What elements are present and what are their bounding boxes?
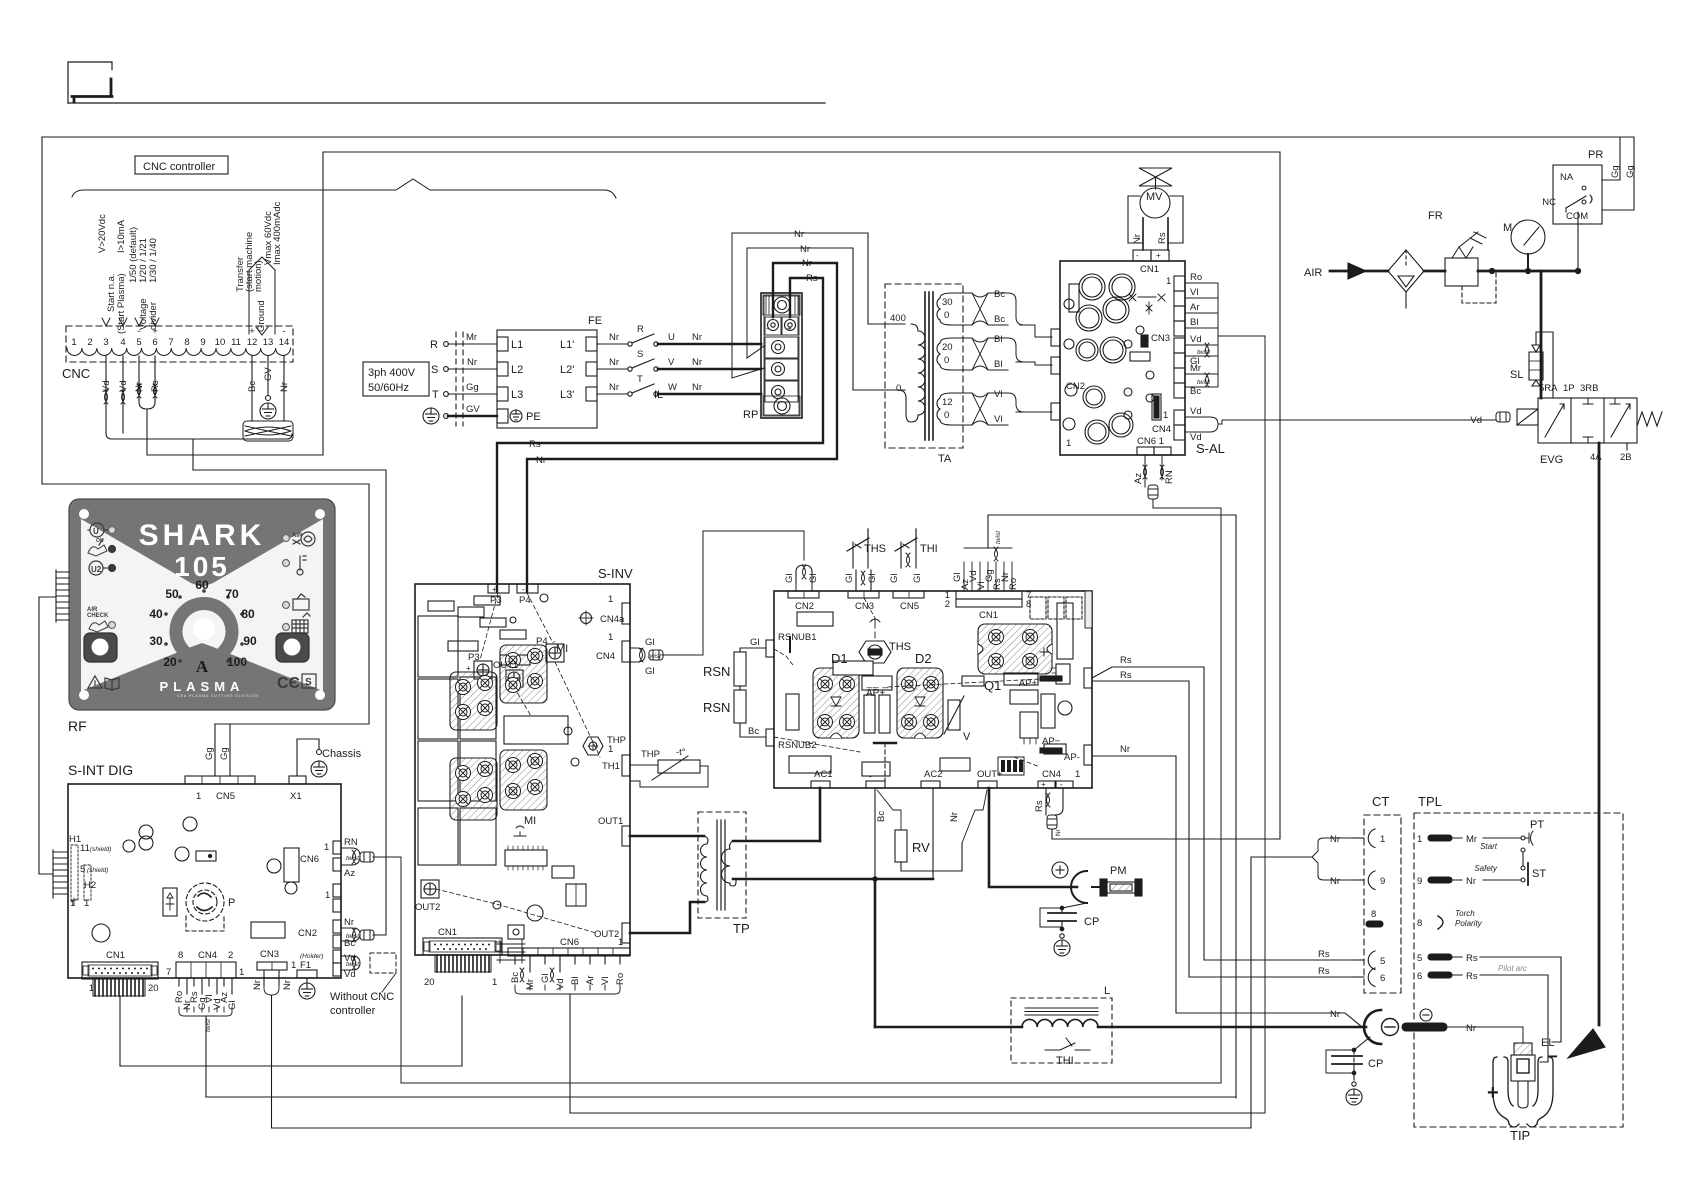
wire bus below CNC <box>106 433 292 439</box>
svg-text:divider: divider <box>148 302 159 330</box>
svg-text:5RA: 5RA <box>1539 383 1558 394</box>
TA secondary leads <box>952 293 972 425</box>
air flow arrowhead to torch <box>1568 1029 1605 1058</box>
wire Bc to RV <box>877 790 901 830</box>
RP and TA wiring <box>497 233 905 592</box>
svg-text:RV: RV <box>912 840 930 855</box>
svg-text:V>20Vdc: V>20Vdc <box>97 214 108 253</box>
svg-text:controller: controller <box>330 1005 376 1017</box>
svg-text:twist: twist <box>1197 379 1211 386</box>
twist marks TA pairs <box>972 293 988 325</box>
cable join Nr/Rs <box>139 399 155 409</box>
svg-text:S: S <box>305 677 312 688</box>
svg-text:CЄ: CЄ <box>277 675 300 692</box>
svg-text:U: U <box>93 527 99 536</box>
svg-text:5: 5 <box>1380 956 1385 967</box>
svg-text:CHECK: CHECK <box>87 613 109 619</box>
CN4 S-INT connector <box>176 962 236 1097</box>
svg-text:3ph 400V: 3ph 400V <box>368 367 416 379</box>
svg-text:+: + <box>466 664 471 673</box>
svg-text:W: W <box>668 382 677 393</box>
V varistor <box>948 700 960 730</box>
RP top screw <box>763 295 800 315</box>
panel dial <box>149 578 257 676</box>
svg-text:TA: TA <box>938 453 952 465</box>
svg-text:PLASMA: PLASMA <box>160 679 245 694</box>
svg-text:AP−: AP− <box>1042 736 1061 747</box>
EL electrode <box>1511 1043 1535 1108</box>
earth symbol input <box>423 408 439 424</box>
AP wires right <box>1092 667 1204 1013</box>
OUT1 tab <box>622 826 630 846</box>
svg-text:1: 1 <box>1166 276 1171 287</box>
wire L3'-Nr <box>597 393 628 395</box>
svg-text:CN1: CN1 <box>979 610 998 621</box>
RP AC terminals <box>765 337 798 358</box>
svg-text:CN2: CN2 <box>795 601 814 612</box>
svg-text:30: 30 <box>942 297 953 308</box>
svg-text:9: 9 <box>200 337 205 348</box>
power board internals <box>774 591 1092 788</box>
AP+ AP- right tabs <box>1084 668 1092 688</box>
svg-text:CN4a: CN4a <box>600 614 625 625</box>
CN3 S-INT connector <box>257 962 287 1128</box>
svg-text:400: 400 <box>890 313 906 324</box>
svg-text:GV: GV <box>466 404 480 415</box>
small bottom left rects <box>789 756 831 773</box>
svg-text:Gl: Gl <box>750 637 760 648</box>
P3 screw <box>474 661 492 679</box>
svg-text:Nr: Nr <box>794 229 804 240</box>
EVG output line down <box>1598 443 1601 1025</box>
svg-text:EVG: EVG <box>1540 454 1563 466</box>
svg-text:CNC controller: CNC controller <box>143 161 215 173</box>
pin 8 <box>1366 921 1383 927</box>
CNC output wires <box>104 356 386 930</box>
CN1 bundle labels <box>784 530 1031 621</box>
TA core <box>924 292 926 440</box>
svg-text:THS: THS <box>864 543 886 555</box>
svg-text:Rs: Rs <box>1120 670 1132 681</box>
ST safety switch <box>1521 866 1525 870</box>
svg-text:Az: Az <box>344 868 355 879</box>
svg-text:90: 90 <box>243 634 257 648</box>
P4 screw <box>546 644 564 662</box>
svg-text:Nr: Nr <box>1120 744 1130 755</box>
svg-text:MI: MI <box>524 815 536 827</box>
U1 led icon <box>90 523 104 537</box>
wires Rs to CT5 CT6 <box>1176 960 1362 1027</box>
wire OUT+ thick to PM <box>989 788 1077 887</box>
pin 5 <box>1428 954 1452 960</box>
ferrite filter on Bc/Nr <box>243 421 293 441</box>
svg-text:R: R <box>430 339 438 351</box>
wire Rs AP+ lower <box>1092 681 1189 977</box>
svg-text:CN6: CN6 <box>300 854 319 865</box>
FE board box <box>497 330 597 428</box>
svg-text:Nr: Nr <box>1466 876 1476 887</box>
earth symbol GV <box>260 403 276 419</box>
CNC annotation texts <box>97 201 283 334</box>
dashed rect row top right <box>1030 597 1046 619</box>
svg-text:20: 20 <box>424 977 435 988</box>
svg-text:20: 20 <box>163 655 177 669</box>
thick minus wire through L <box>875 1026 1022 1029</box>
svg-text:OUT+: OUT+ <box>977 769 1003 780</box>
air line down to EVG <box>1540 271 1543 398</box>
svg-text:2: 2 <box>228 950 233 961</box>
EVG valve body <box>1538 398 1637 443</box>
svg-text:RSN: RSN <box>703 700 730 715</box>
wire comb to S-INT H1 <box>39 597 56 874</box>
svg-text:Nr: Nr <box>536 455 546 466</box>
svg-text:Nr: Nr <box>692 332 702 343</box>
svg-text:Rs: Rs <box>1034 800 1045 812</box>
svg-text:AC2: AC2 <box>924 769 942 780</box>
svg-text:SL: SL <box>1510 369 1523 381</box>
svg-text:Gl: Gl <box>889 574 900 584</box>
svg-text:Torch: Torch <box>1455 909 1475 918</box>
svg-text:Gl: Gl <box>540 974 551 984</box>
svg-text:8: 8 <box>178 950 183 961</box>
svg-text:Start: Start <box>1480 842 1498 851</box>
left button <box>84 633 117 662</box>
svg-text:Nr: Nr <box>279 382 290 392</box>
CN1 connector S-AL <box>1133 250 1151 261</box>
white rect mid <box>504 716 568 744</box>
svg-text:Rs: Rs <box>1466 953 1478 964</box>
svg-text:U2: U2 <box>91 565 102 574</box>
svg-text:Bc: Bc <box>247 381 258 392</box>
svg-text:+: + <box>249 326 255 337</box>
svg-text:NA: NA <box>1560 172 1574 183</box>
svg-text:Vl: Vl <box>994 389 1002 400</box>
svg-text:1: 1 <box>89 983 94 994</box>
svg-text:PT: PT <box>1530 819 1544 831</box>
svg-text:Nr: Nr <box>1055 828 1062 836</box>
svg-text:-: - <box>1136 251 1139 260</box>
CN3 connector top <box>848 591 879 598</box>
svg-text:FR: FR <box>1428 210 1443 222</box>
svg-text:6: 6 <box>1380 973 1385 984</box>
TA secondary 20V <box>937 338 952 370</box>
small rect with dot <box>196 851 216 861</box>
svg-text:4: 4 <box>120 337 125 348</box>
svg-text:Gg: Gg <box>219 747 230 760</box>
ground arrow outline to terminal 13 <box>249 257 275 335</box>
FE terminals left <box>497 337 508 351</box>
svg-text:PM: PM <box>1110 865 1127 877</box>
svg-text:ON: ON <box>96 538 104 544</box>
air line filter to regulator <box>1424 270 1445 273</box>
THS hexagon <box>859 641 891 663</box>
MV leads <box>1142 218 1144 250</box>
svg-text:Nr: Nr <box>282 980 293 990</box>
svg-text:RP: RP <box>743 409 758 421</box>
RSNUB2 resistor <box>786 694 799 730</box>
MV motor circle <box>1140 188 1170 218</box>
svg-text:V: V <box>668 357 675 368</box>
TA dashed box <box>885 284 963 448</box>
svg-text:CT: CT <box>1372 794 1389 809</box>
S-AL small rects <box>1069 284 1079 312</box>
svg-text:(shield): (shield) <box>87 867 108 874</box>
FE PE symbol <box>510 410 522 422</box>
svg-text:5: 5 <box>1417 953 1422 964</box>
MI module top left <box>450 672 497 730</box>
svg-text:20: 20 <box>148 983 159 994</box>
wire S-Nr <box>448 368 497 370</box>
svg-text:PE: PE <box>526 411 541 423</box>
TP primary winding <box>630 835 704 838</box>
wire Nr2 RP to TA 0 <box>747 248 905 390</box>
svg-text:Ro: Ro <box>1190 272 1202 283</box>
svg-text:Vl: Vl <box>600 977 611 985</box>
svg-text:0: 0 <box>944 355 949 366</box>
panel right controls <box>276 532 316 692</box>
svg-text:Ar: Ar <box>1190 302 1200 313</box>
svg-text:Nr: Nr <box>692 382 702 393</box>
pin 1 <box>1428 835 1452 841</box>
3ph 400V label box <box>363 362 429 396</box>
wire Nr pin14 <box>283 356 285 421</box>
svg-text:Bl: Bl <box>570 977 581 985</box>
svg-text:Nr: Nr <box>1330 876 1340 887</box>
svg-text:AP+: AP+ <box>1019 678 1038 689</box>
RP bottom screw <box>763 396 800 416</box>
svg-text:Rs: Rs <box>1318 949 1330 960</box>
svg-text:Mr: Mr <box>466 332 477 343</box>
svg-text:Gl: Gl <box>645 637 655 648</box>
pin 6 <box>1428 972 1452 978</box>
svg-text:CP: CP <box>1084 916 1099 928</box>
svg-text:NC: NC <box>1542 197 1556 208</box>
OUT1 screw <box>506 670 523 687</box>
OUT2 tab <box>622 923 630 943</box>
svg-text:CN4: CN4 <box>1152 424 1171 435</box>
svg-text:L1: L1 <box>511 339 523 351</box>
svg-text:THS: THS <box>889 641 911 653</box>
S-INV board outline <box>415 584 630 955</box>
svg-text:14: 14 <box>279 337 290 348</box>
svg-text:twist: twist <box>1197 349 1211 356</box>
panel left controls <box>84 523 119 690</box>
FE terminals right <box>586 337 597 351</box>
wire U thick to RP <box>658 343 761 346</box>
svg-text:twist: twist <box>648 653 662 660</box>
contactor IL blade R <box>628 342 632 346</box>
svg-text:6: 6 <box>1417 971 1422 982</box>
power board bottom wiring <box>820 152 1280 1027</box>
svg-text:CN1: CN1 <box>1140 264 1159 275</box>
bottom tabs <box>811 781 830 788</box>
svg-text:Gl: Gl <box>867 574 878 584</box>
svg-text:Bl: Bl <box>1190 317 1198 328</box>
warning book icons <box>88 676 102 688</box>
svg-text:3RB: 3RB <box>1580 383 1598 394</box>
wire Gg CN5 left <box>214 724 216 776</box>
svg-text:AC1: AC1 <box>814 769 832 780</box>
THI aux contact <box>1045 1038 1090 1050</box>
svg-text:RSNUB2: RSNUB2 <box>778 740 817 751</box>
U2 led icon <box>89 561 103 575</box>
right edge connector tabs <box>333 841 341 854</box>
svg-text:CN4: CN4 <box>1042 769 1061 780</box>
wire GV pin13 to earth <box>267 356 269 395</box>
svg-text:40: 40 <box>149 607 163 621</box>
svg-text:T: T <box>432 389 439 401</box>
svg-text:Vd: Vd <box>344 969 356 980</box>
svg-text:Vd: Vd <box>1470 415 1482 426</box>
svg-text:Nr: Nr <box>467 357 477 368</box>
MAIN SCHEMATIC <box>42 137 1634 484</box>
right button <box>276 633 309 662</box>
bottom ICs <box>505 850 547 866</box>
svg-text:Vd: Vd <box>101 380 112 392</box>
svg-text:1: 1 <box>1380 834 1385 845</box>
svg-text:Ro: Ro <box>615 973 626 985</box>
svg-text:5: 5 <box>80 864 85 875</box>
svg-text:Gl: Gl <box>912 574 923 584</box>
svg-text:11: 11 <box>231 337 241 348</box>
svg-text:L2: L2 <box>511 364 523 376</box>
svg-text:MV: MV <box>1146 191 1163 203</box>
svg-text:twist: twist <box>346 933 360 940</box>
svg-text:1: 1 <box>492 977 497 988</box>
PR pressure switch box <box>1553 165 1602 224</box>
svg-text:1: 1 <box>239 967 244 978</box>
svg-text:8: 8 <box>184 337 189 348</box>
wires Ro Vl Ar Bl bundle to S-INV CN6 <box>1185 283 1218 336</box>
svg-text:80: 80 <box>241 607 255 621</box>
svg-text:Mr: Mr <box>1190 363 1201 374</box>
MV housing <box>1128 196 1183 243</box>
svg-text:1: 1 <box>1075 769 1080 780</box>
wire Nr from OUT+ <box>962 790 987 843</box>
svg-text:Q1: Q1 <box>984 678 1001 693</box>
svg-text:F1: F1 <box>300 960 311 971</box>
wire Gg frame inner: PR to FE Gg tap <box>323 152 1280 455</box>
svg-text:V: V <box>963 731 971 743</box>
svg-text:MI: MI <box>556 643 568 655</box>
wire Gg frame outer: PR to RF panel loop <box>42 137 1634 484</box>
svg-text:L: L <box>1104 985 1110 997</box>
svg-text:S: S <box>431 364 438 376</box>
svg-text:Bc: Bc <box>748 726 759 737</box>
S-AL left tabs <box>1051 329 1060 346</box>
svg-text:L3': L3' <box>560 389 574 401</box>
svg-text:0: 0 <box>944 410 949 421</box>
TA pair runs to S-AL <box>988 293 1052 337</box>
svg-text:CN2: CN2 <box>298 928 317 939</box>
svg-text:-t°: -t° <box>676 747 686 758</box>
CN2 S-INT wires <box>341 928 386 942</box>
svg-text:RN: RN <box>344 837 358 848</box>
svg-text:2: 2 <box>945 599 950 610</box>
svg-text:3: 3 <box>103 337 108 348</box>
wire branch to S-INT CN2 <box>193 439 386 930</box>
svg-text:H2: H2 <box>84 880 96 891</box>
svg-text:RSNUB1: RSNUB1 <box>778 632 817 643</box>
svg-text:TIP: TIP <box>1510 1128 1530 1143</box>
svg-text:Bc: Bc <box>994 314 1005 325</box>
svg-text:Az: Az <box>1133 473 1144 484</box>
svg-text:L3: L3 <box>511 389 523 401</box>
wire Bc pin12 <box>251 356 253 421</box>
svg-text:COM: COM <box>1566 211 1588 222</box>
component near P <box>163 888 177 916</box>
svg-text:6: 6 <box>152 337 157 348</box>
svg-text:CP: CP <box>1368 1058 1383 1070</box>
CN4 pair down <box>1046 788 1063 815</box>
svg-text:1: 1 <box>71 337 76 348</box>
svg-text:R: R <box>637 324 644 335</box>
twist mark Vd pair <box>104 390 108 404</box>
D2 diode module <box>897 668 943 738</box>
svg-text:Vd: Vd <box>1190 334 1202 345</box>
wire Nr to minus connector <box>1176 1013 1362 1027</box>
svg-text:0: 0 <box>944 310 949 321</box>
L inductor <box>875 998 1366 1063</box>
svg-text:Gl: Gl <box>227 1001 238 1011</box>
svg-text:60: 60 <box>195 578 209 592</box>
svg-text:T: T <box>637 374 643 385</box>
DIP switch <box>998 757 1024 775</box>
svg-text:Pilot arc: Pilot arc <box>1498 964 1527 973</box>
svg-text:Gg: Gg <box>1625 165 1636 178</box>
svg-text:Safety: Safety <box>1474 864 1498 873</box>
left big rects <box>418 616 458 677</box>
svg-text:Gg: Gg <box>466 382 479 393</box>
svg-text:L1': L1' <box>560 339 574 351</box>
svg-text:RF: RF <box>68 718 87 734</box>
svg-text:Rs: Rs <box>1157 232 1168 244</box>
CN5 connector <box>185 776 255 784</box>
twist marks CN3 pairs <box>1205 343 1209 357</box>
svg-text:I>10mA: I>10mA <box>116 219 127 253</box>
CN2 connector top <box>788 591 819 598</box>
CN4 tab <box>622 641 630 662</box>
S-AL right side wire stubs <box>1185 283 1496 1113</box>
svg-text:Ro: Ro <box>1008 578 1019 590</box>
svg-text:-: - <box>542 651 545 660</box>
svg-text:twist: twist <box>346 855 360 862</box>
S-INV CN4 Gl pair riser to power board CN2 <box>630 531 804 662</box>
svg-text:CN4: CN4 <box>198 950 217 961</box>
svg-text:+: + <box>1156 251 1161 260</box>
wire Vd pin4 <box>122 356 124 433</box>
CN6 connector S-INV <box>508 948 630 956</box>
panel body <box>69 499 335 710</box>
TA secondary 30V <box>937 293 952 325</box>
svg-text:AP-: AP- <box>1064 752 1080 763</box>
svg-text:D1: D1 <box>831 651 848 666</box>
CNC terminal numbers <box>71 326 289 348</box>
svg-text:THI: THI <box>920 543 938 555</box>
bus S-INT CN4 to power CN1 <box>206 1096 1236 1098</box>
svg-text:Mr: Mr <box>525 979 536 990</box>
CNC terminal strip dashed box <box>66 326 293 362</box>
H1 header comb <box>52 850 54 898</box>
P potentiometer <box>186 883 224 921</box>
svg-text:Rs: Rs <box>806 273 818 284</box>
terminal scallops <box>67 348 291 355</box>
svg-text:TH1: TH1 <box>602 761 620 772</box>
svg-text:13: 13 <box>263 337 274 348</box>
svg-text:Rs: Rs <box>1466 971 1478 982</box>
MI module top right <box>500 645 547 703</box>
wire Gg CN5 right <box>229 724 231 776</box>
